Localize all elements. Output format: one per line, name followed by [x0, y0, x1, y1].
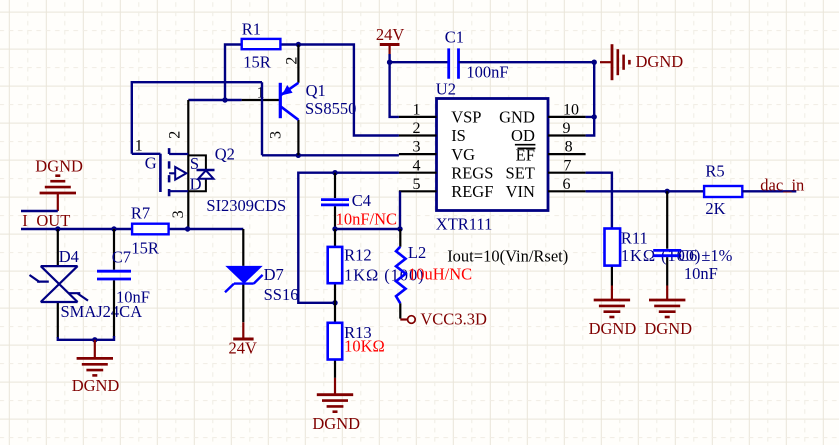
- pin U2 6 VIN: [548, 190, 586, 192]
- node junction 24V / C1: [387, 60, 392, 65]
- node junction C7 tap: [111, 226, 116, 231]
- svg-text:XTR111: XTR111: [436, 215, 493, 234]
- svg-text:C1: C1: [445, 28, 464, 47]
- svg-text:G: G: [145, 154, 157, 173]
- svg-text:SET: SET: [506, 163, 535, 182]
- svg-text:1: 1: [257, 85, 265, 102]
- svg-text:15R: 15R: [131, 239, 159, 258]
- resistor R13: [328, 303, 343, 378]
- svg-text:R7: R7: [131, 204, 150, 223]
- resistor R1: [242, 39, 281, 49]
- wire I_OUT output line: [21, 228, 188, 230]
- node junction Q2 drain / R7: [185, 226, 190, 231]
- wire Q2 source to Q1 base: [188, 99, 241, 101]
- wire DGND stub (top-left): [21, 210, 58, 212]
- pin Q2 gate pin 1: [132, 153, 161, 155]
- svg-text:3: 3: [413, 139, 421, 156]
- svg-text:10KΩ: 10KΩ: [344, 336, 385, 355]
- node junction C4/R12: [332, 226, 337, 231]
- svg-text:S: S: [190, 154, 199, 173]
- svg-text:Q1: Q1: [306, 81, 326, 100]
- svg-text:D7: D7: [264, 265, 284, 284]
- pin U2 2 IS: [399, 134, 437, 136]
- svg-text:Q2: Q2: [215, 144, 235, 163]
- wire SET to R11: [586, 173, 612, 230]
- wire VG loop to Q2 gate: [132, 82, 262, 155]
- pin U2 4 REGS: [399, 172, 437, 174]
- resistor R12: [328, 229, 343, 303]
- node junction R12/R13 divider: [332, 300, 337, 305]
- wire L2 to VCC terminal: [400, 318, 407, 320]
- svg-text:10nF: 10nF: [116, 288, 150, 307]
- svg-text:5: 5: [413, 176, 421, 193]
- svg-text:SS8550: SS8550: [305, 99, 356, 118]
- wire C6 to ground: [666, 286, 668, 301]
- svg-text:1: 1: [413, 102, 421, 119]
- svg-text:R11: R11: [621, 229, 648, 248]
- pin U2 5 REGF: [399, 190, 437, 192]
- node junction ground tap: [92, 337, 97, 342]
- svg-text:C6 ±1%: C6 ±1%: [678, 246, 733, 265]
- wire output line C4 to L2: [335, 228, 400, 230]
- svg-text:SS16: SS16: [264, 285, 299, 304]
- svg-text:7: 7: [563, 157, 571, 174]
- wire R1 right to IS (U2 pin 2): [280, 45, 399, 136]
- svg-text:3: 3: [170, 210, 187, 218]
- svg-text:C4: C4: [352, 191, 371, 210]
- svg-text:VSP: VSP: [451, 108, 481, 127]
- diode D4 SMAJ24CA (TVS): [30, 229, 89, 338]
- pin name EF overline: [518, 147, 536, 149]
- wire VG net to U2 pin 3: [262, 154, 399, 156]
- svg-text:DGND: DGND: [35, 156, 83, 175]
- inductor L2: [396, 229, 406, 319]
- svg-text:15R: 15R: [243, 53, 271, 72]
- svg-text:GND: GND: [499, 108, 535, 127]
- ground DGND (R13): [317, 378, 353, 412]
- power symbol DGND flipped (top-left): [40, 176, 76, 211]
- svg-text:DGND: DGND: [72, 376, 120, 395]
- node junction R1-left / base: [222, 97, 227, 102]
- node junction Q1 collector / VG: [296, 153, 301, 158]
- pin U2 9 OD: [548, 134, 586, 136]
- svg-text:100nF: 100nF: [466, 63, 508, 82]
- svg-text:D4: D4: [59, 247, 79, 266]
- wire 24V to U2 pin 1: [390, 54, 399, 117]
- svg-text:10uH/NC: 10uH/NC: [408, 265, 472, 284]
- wire R11 to ground: [611, 286, 613, 301]
- svg-text:DGND: DGND: [312, 414, 360, 433]
- pin Q1 base pin 1: [242, 99, 281, 101]
- svg-text:10: 10: [563, 102, 579, 119]
- transistor Q2 SI2309CDS: [160, 100, 214, 229]
- svg-text:R1: R1: [242, 19, 261, 38]
- svg-text:4: 4: [413, 157, 421, 174]
- pin U2 7 SET: [548, 172, 586, 174]
- svg-text:R12: R12: [344, 246, 372, 265]
- svg-text:SI2309CDS: SI2309CDS: [206, 196, 286, 215]
- wire 24V to C1 left: [390, 61, 449, 63]
- power symbol 24V (top): [380, 45, 400, 55]
- wire REGS to divider: [298, 173, 399, 303]
- pin U2 10 GND: [548, 116, 586, 118]
- wire Q2 drain to D7: [188, 228, 244, 230]
- svg-text:DGND: DGND: [636, 52, 684, 71]
- svg-text:Iout=10(Vin/Rset): Iout=10(Vin/Rset): [447, 246, 568, 265]
- node junction C4 tap on REGS: [332, 170, 337, 175]
- diode D7 SS16: [225, 229, 263, 322]
- svg-text:6: 6: [563, 176, 571, 193]
- svg-text:D: D: [190, 175, 202, 194]
- svg-text:24V: 24V: [376, 25, 405, 44]
- svg-text:2: 2: [284, 57, 301, 65]
- resistor R11: [605, 229, 621, 286]
- svg-text:24V: 24V: [229, 338, 258, 357]
- node junction REGF/L2: [397, 226, 402, 231]
- svg-text:dac_in: dac_in: [760, 175, 804, 194]
- wire VIN to R5: [586, 190, 705, 192]
- svg-text:10nF: 10nF: [684, 264, 718, 283]
- resistor R7: [132, 224, 169, 235]
- svg-text:C7: C7: [112, 248, 131, 267]
- pin name OD underline: [515, 144, 536, 146]
- svg-text:DGND: DGND: [589, 319, 637, 338]
- node junction GND pin tap: [592, 114, 597, 119]
- transistor Q1 SS8550: [280, 45, 298, 156]
- node open terminal VCC3.3D: [408, 316, 416, 324]
- node junction C6 tap: [665, 189, 670, 194]
- node junction D4 tap: [55, 226, 60, 231]
- svg-text:REGF: REGF: [451, 182, 493, 201]
- capacitor C6: [653, 191, 681, 285]
- wire R1 left leg to Q1 base line: [225, 45, 242, 101]
- ground DGND (R11): [594, 300, 630, 317]
- pin U2 3 VG: [399, 153, 437, 155]
- svg-text:REGS: REGS: [451, 163, 493, 182]
- wire C1 right to DGND / U2 GND,OD: [459, 62, 595, 135]
- pin U2 8 EF: [548, 153, 586, 155]
- svg-text:VIN: VIN: [506, 182, 535, 201]
- power symbol 24V (bottom): [233, 322, 253, 339]
- svg-text:R5: R5: [705, 162, 724, 181]
- ground DGND (C6): [649, 300, 685, 317]
- node junction R1-right / Q1 emitter: [296, 42, 301, 47]
- svg-text:2: 2: [167, 131, 184, 139]
- svg-text:IS: IS: [451, 126, 466, 145]
- pin U2 1 VSP: [399, 116, 437, 118]
- wire REGF to output line: [399, 191, 401, 229]
- svg-text:U2: U2: [436, 79, 456, 98]
- svg-text:8: 8: [565, 139, 573, 156]
- svg-text:L2: L2: [408, 243, 426, 262]
- svg-text:10nF/NC: 10nF/NC: [336, 210, 397, 229]
- node junction C1 / DGND: [592, 60, 597, 65]
- svg-text:9: 9: [563, 120, 571, 137]
- svg-text:DGND: DGND: [644, 319, 692, 338]
- svg-text:OD: OD: [511, 126, 535, 145]
- resistor R5: [704, 186, 742, 197]
- svg-text:VCC3.3D: VCC3.3D: [420, 310, 487, 329]
- ground DGND (bottom-left): [77, 340, 113, 376]
- capacitor C4: [321, 173, 349, 229]
- ground DGND sideways (top-right): [600, 44, 629, 80]
- svg-text:1: 1: [135, 138, 143, 155]
- svg-text:2K: 2K: [705, 199, 725, 218]
- capacitor C1: [449, 48, 459, 78]
- op-amp U2 XTR111 body: [437, 99, 549, 211]
- svg-text:3: 3: [268, 131, 285, 139]
- wire D4/C7 bottom to ground: [58, 336, 114, 340]
- wire R5 to dac_in: [742, 190, 796, 192]
- svg-text:2: 2: [413, 120, 421, 137]
- svg-text:VG: VG: [451, 145, 475, 164]
- capacitor C7: [97, 229, 131, 337]
